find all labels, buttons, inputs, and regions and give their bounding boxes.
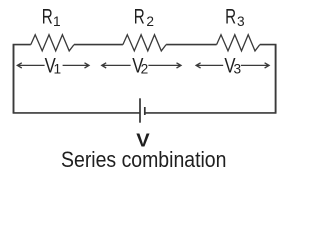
svg-text:R: R [225, 4, 236, 28]
arrow right of V3 [241, 63, 269, 68]
battery V long plate (positive) [139, 98, 141, 122]
resistor R1 [31, 35, 74, 51]
svg-text:3: 3 [237, 14, 245, 29]
wire: top-right segment from R3 to corner [260, 44, 277, 46]
resistor R2 [123, 35, 166, 51]
label V1 [45, 55, 62, 78]
svg-text:Series combination: Series combination [61, 148, 226, 172]
label V2 [132, 55, 148, 78]
label R2 [134, 4, 154, 29]
wire: segment between R2 and R3 [166, 44, 217, 46]
wire: bottom-right segment from battery [145, 112, 277, 114]
wire: top-left segment to R1 [13, 44, 31, 46]
wire: left vertical side of loop [13, 45, 15, 113]
svg-text:R: R [42, 4, 53, 28]
svg-text:R: R [134, 4, 145, 28]
svg-text:3: 3 [233, 62, 241, 77]
wire: right vertical side of loop [275, 45, 277, 113]
label R1 [42, 4, 61, 29]
svg-text:1: 1 [53, 14, 61, 29]
resistor R3 [217, 35, 260, 51]
arrow right of V2 [148, 63, 181, 68]
label V3 [224, 55, 241, 78]
arrow left of V2 [102, 63, 131, 68]
wire: bottom-left segment to battery [13, 112, 140, 114]
label R3 [225, 4, 245, 29]
svg-text:2: 2 [146, 14, 154, 29]
wire: segment between R1 and R2 [74, 44, 123, 46]
battery V short plate (negative) [144, 107, 146, 115]
arrow left of V3 [196, 63, 223, 68]
svg-text:2: 2 [141, 62, 149, 77]
svg-text:1: 1 [53, 62, 61, 77]
arrow left of V1 [17, 63, 44, 68]
arrow right of V1 [63, 63, 89, 68]
label V (battery voltage) [136, 131, 150, 151]
caption: Series combination [61, 148, 226, 172]
